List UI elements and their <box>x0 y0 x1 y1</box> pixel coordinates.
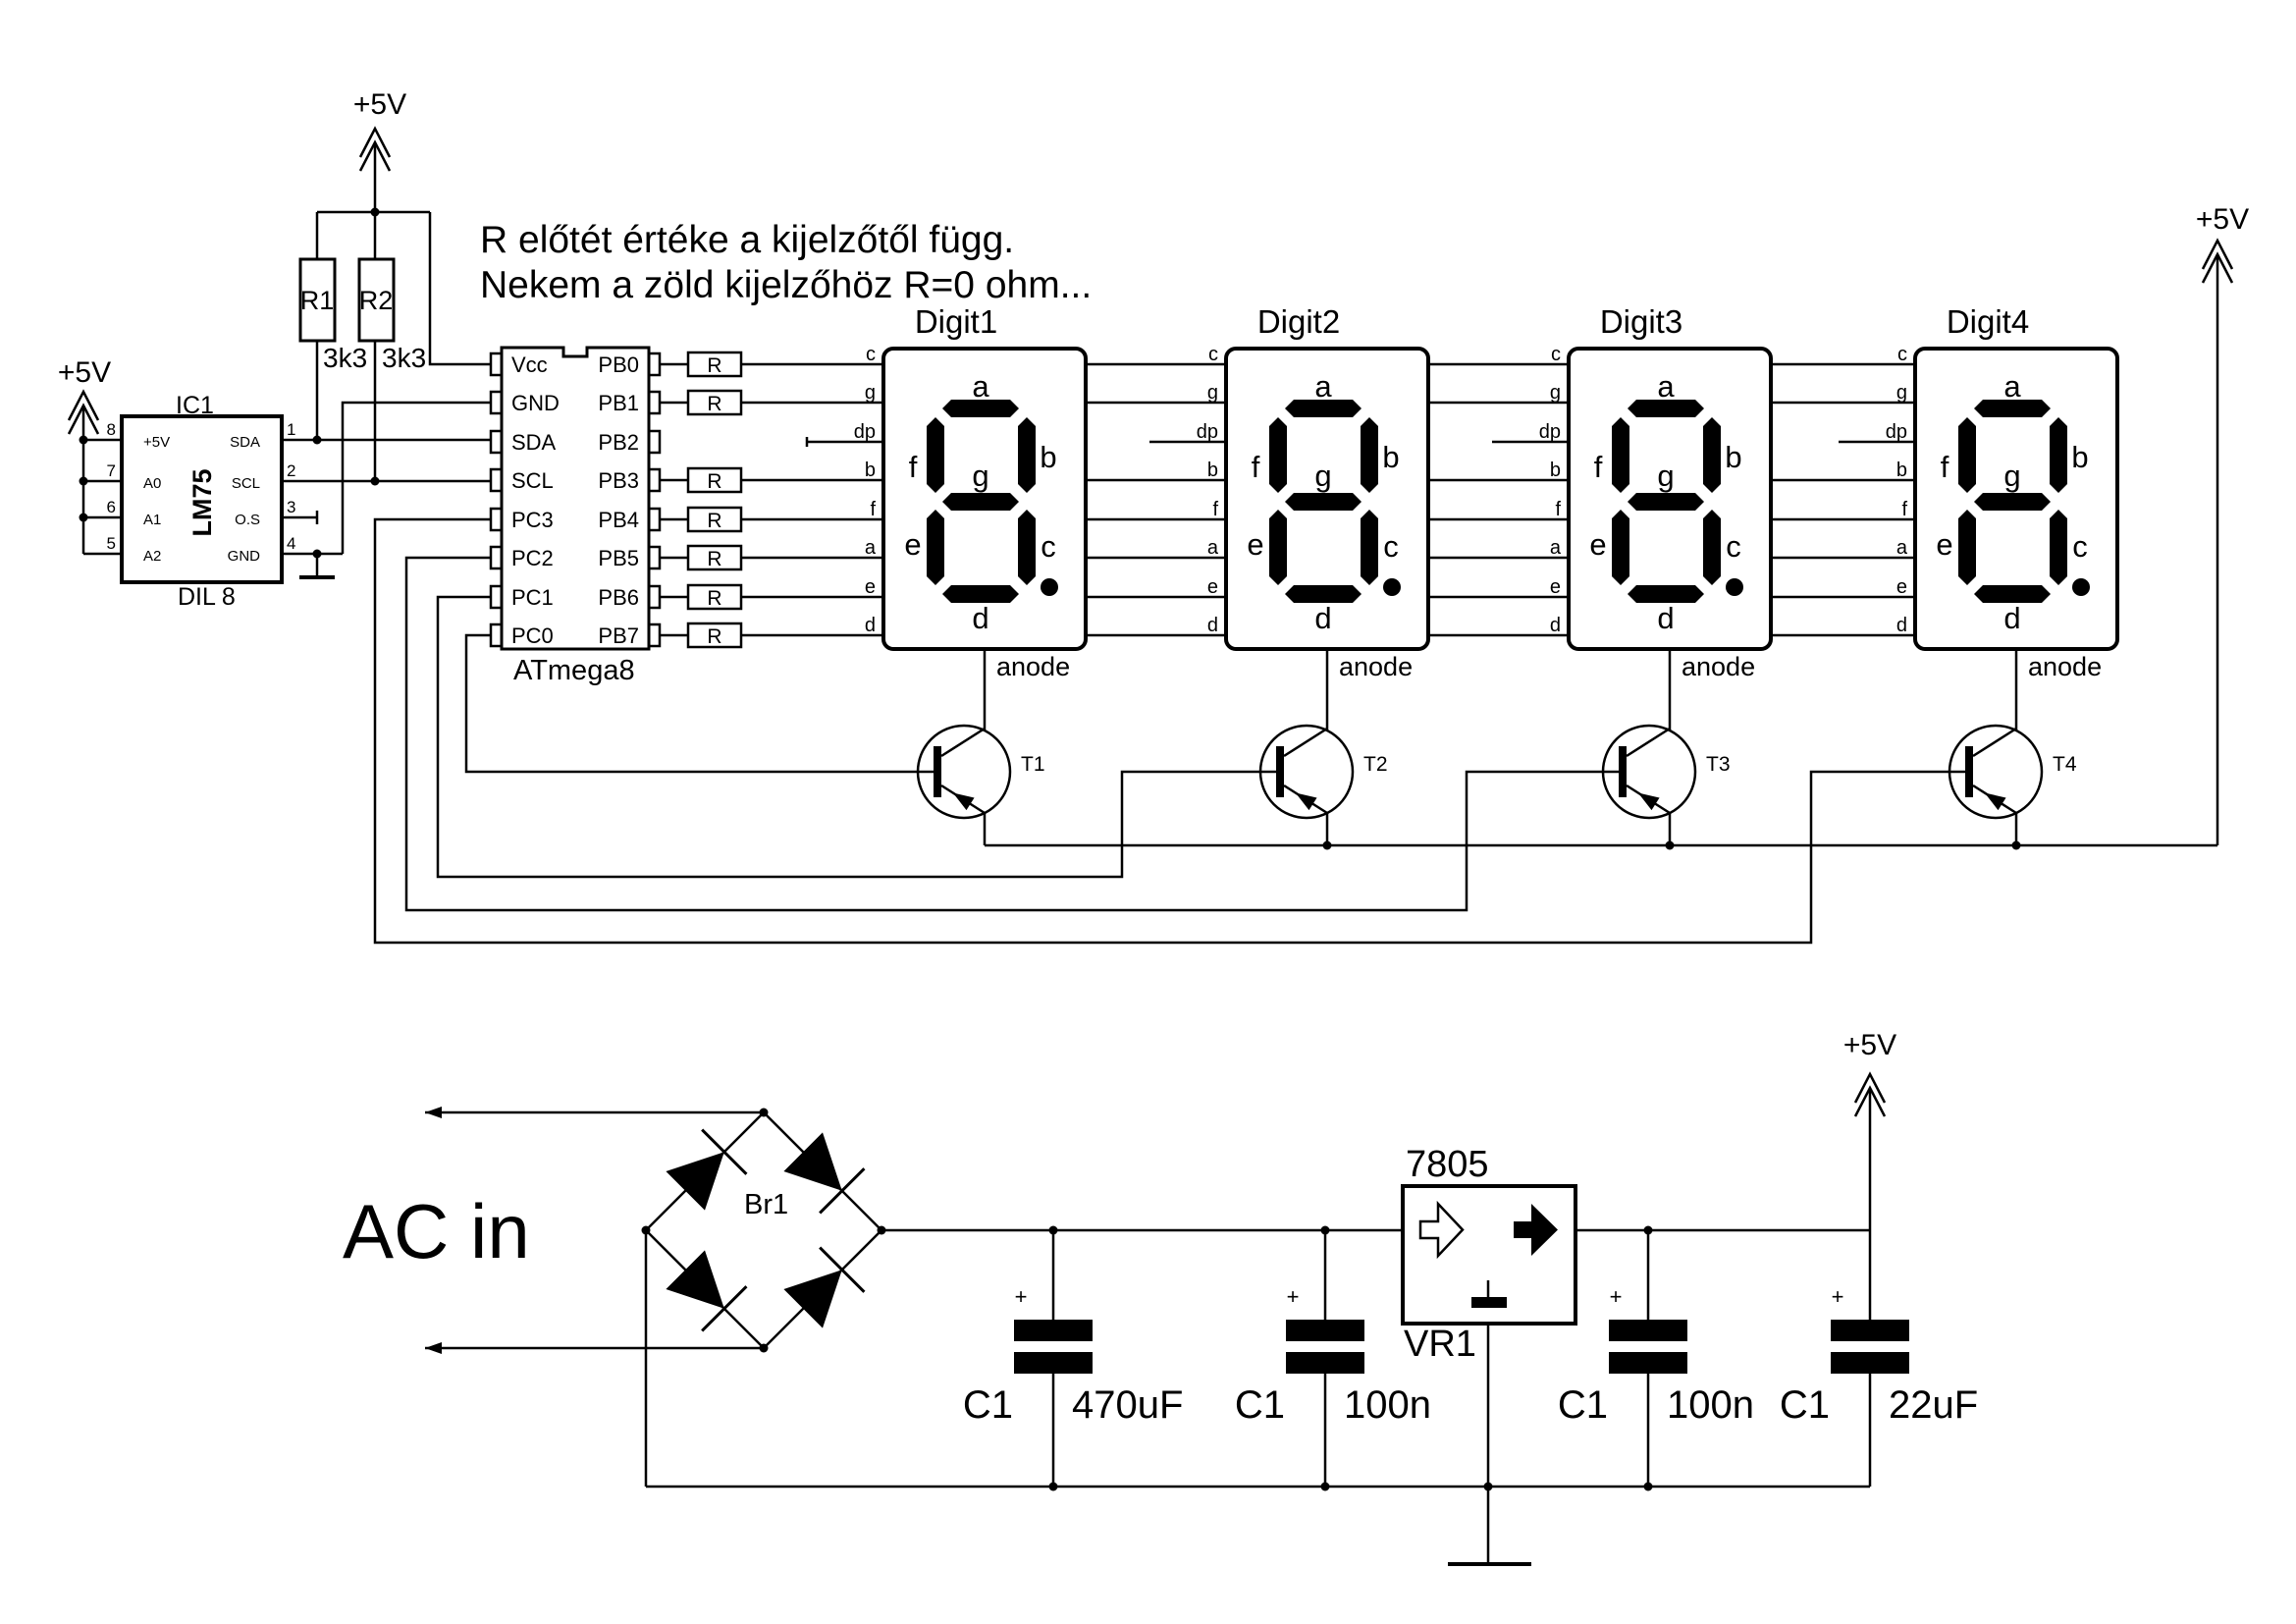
svg-text:d: d <box>1207 615 1218 636</box>
svg-text:d: d <box>972 601 988 635</box>
svg-text:d: d <box>2003 601 2020 635</box>
wire bridge minus down <box>645 1230 648 1487</box>
svg-text:f: f <box>1901 499 1907 520</box>
svg-text:g: g <box>1550 382 1561 404</box>
Digit4 segment f <box>1958 417 1976 493</box>
Digit3 segment f <box>1612 417 1629 493</box>
svg-text:C1: C1 <box>1558 1383 1608 1427</box>
wire PC0 to T1 base <box>466 635 934 772</box>
Digit3 segment g <box>1628 493 1704 511</box>
svg-text:f: f <box>1941 450 1949 484</box>
node junction T3 emitter <box>1666 841 1675 850</box>
svg-text:PB7: PB7 <box>598 623 639 648</box>
svg-text:b: b <box>2071 440 2088 474</box>
VR1 output arrow (solid) <box>1514 1204 1558 1256</box>
resistor R (PB7 series) <box>688 623 741 647</box>
node junction VR1 ground/rail <box>1484 1483 1493 1491</box>
wire PB4 to resistor <box>660 518 688 521</box>
svg-text:Nekem a zöld kijelzőhöz R=0 oh: Nekem a zöld kijelzőhöz R=0 ohm... <box>480 264 1092 306</box>
wire PB0 to resistor <box>660 363 688 366</box>
wire PC1 to T2 base <box>438 597 1276 877</box>
wire segment bus c Digit3 to Digit4 <box>1771 363 1915 366</box>
Digit1 segment f <box>927 417 944 493</box>
svg-text:f: f <box>1594 450 1603 484</box>
wire segment bus d Digit3 to Digit4 <box>1771 634 1915 637</box>
wire resistor to Digit1 (c) <box>741 363 883 366</box>
display Digit1 body <box>883 349 1086 649</box>
svg-text:SDA: SDA <box>511 430 557 455</box>
svg-text:anode: anode <box>1682 652 1755 681</box>
node junction C1 top <box>1049 1226 1058 1235</box>
svg-text:c: c <box>2072 529 2088 564</box>
svg-text:c: c <box>1383 529 1399 564</box>
svg-text:+: + <box>1287 1284 1300 1309</box>
ATmega8 pin stub SCL <box>491 469 502 491</box>
Digit2 segment d <box>1285 585 1362 603</box>
svg-text:e: e <box>904 527 921 562</box>
Digit4 segment a <box>1974 400 2051 417</box>
svg-text:3k3: 3k3 <box>323 343 367 373</box>
wire anode (Digit4) <box>2015 649 2018 731</box>
ground symbol (LM75) <box>316 554 319 577</box>
diode D2 (bridge top-right) <box>783 1132 841 1190</box>
svg-text:d: d <box>1314 601 1331 635</box>
wire emitter T3 <box>1669 813 1672 845</box>
svg-text:22uF: 22uF <box>1889 1383 1978 1427</box>
svg-text:d: d <box>1550 615 1561 636</box>
wire GND up to ATmega8 GND <box>343 403 491 554</box>
Digit1 segment d <box>942 585 1019 603</box>
wire segment bus b Digit2 to Digit3 <box>1428 479 1569 482</box>
svg-text:GND: GND <box>228 548 261 565</box>
svg-text:c: c <box>1551 344 1561 365</box>
svg-text:anode: anode <box>1339 652 1413 681</box>
svg-text:b: b <box>1896 460 1907 481</box>
wire C3 top <box>1647 1230 1650 1320</box>
ATmega8 pin stub PC1 <box>491 586 502 608</box>
Digit3 segment c <box>1703 510 1721 585</box>
svg-text:R: R <box>707 587 721 610</box>
svg-text:d: d <box>1657 601 1674 635</box>
svg-text:T2: T2 <box>1363 753 1388 776</box>
svg-text:1: 1 <box>287 420 295 439</box>
wire AC input top <box>425 1111 764 1114</box>
svg-text:R: R <box>707 625 721 648</box>
wire segment bus c Digit2 to Digit3 <box>1428 363 1569 366</box>
svg-text:PB4: PB4 <box>598 508 639 532</box>
svg-text:+5V: +5V <box>58 356 111 389</box>
wire PB3 to resistor <box>660 479 688 482</box>
wire resistor to Digit1 (e) <box>741 596 883 599</box>
svg-text:dp: dp <box>854 421 876 443</box>
wire LM75 pin6 stub <box>83 516 122 519</box>
Digit1 segment e <box>927 510 944 585</box>
svg-text:3: 3 <box>287 498 295 516</box>
svg-text:a: a <box>865 537 877 559</box>
Digit3 decimal point <box>1726 578 1743 596</box>
Digit2 segment b <box>1361 417 1378 493</box>
svg-text:e: e <box>1896 576 1907 598</box>
wire anode (Digit1) <box>984 649 987 731</box>
ATmega8 pin stub PB6 <box>649 586 660 608</box>
wire PC2 to T3 base <box>406 558 1619 910</box>
transistor T4 <box>1949 726 2042 818</box>
wire R1 bottom to SDA net <box>316 341 319 440</box>
svg-text:A2: A2 <box>143 548 161 565</box>
svg-text:ATmega8: ATmega8 <box>513 655 635 686</box>
node junction R2/SCL <box>371 477 380 486</box>
resistor R1 <box>300 259 335 341</box>
svg-text:+: + <box>1015 1284 1028 1309</box>
wire C2 bottom <box>1324 1374 1327 1487</box>
svg-text:7805: 7805 <box>1406 1144 1489 1185</box>
Digit2 decimal point <box>1383 578 1401 596</box>
svg-text:dp: dp <box>1886 421 1907 443</box>
ATmega8 pin stub SDA <box>491 431 502 453</box>
node junction T2 emitter <box>1323 841 1332 850</box>
svg-text:g: g <box>1314 459 1331 493</box>
svg-text:Digit4: Digit4 <box>1947 303 2029 340</box>
ATmega8 pin stub PC0 <box>491 624 502 646</box>
svg-text:PB2: PB2 <box>598 430 639 455</box>
svg-text:4: 4 <box>287 534 295 553</box>
svg-text:SCL: SCL <box>511 468 554 493</box>
resistor R (PB3 series) <box>688 468 741 492</box>
svg-text:f: f <box>1555 499 1561 520</box>
svg-text:T1: T1 <box>1021 753 1045 776</box>
svg-text:a: a <box>1657 369 1675 404</box>
svg-text:SCL: SCL <box>232 475 260 492</box>
ATmega8 pin stub PB4 <box>649 509 660 530</box>
svg-text:+5V: +5V <box>143 434 170 451</box>
capacitor C3 (100n) <box>1609 1320 1687 1341</box>
Digit2 segment g <box>1285 493 1362 511</box>
node junction bridge right <box>878 1226 886 1235</box>
wire segment bus e Digit3 to Digit4 <box>1771 596 1915 599</box>
svg-text:a: a <box>1207 537 1219 559</box>
svg-text:R2: R2 <box>359 286 394 315</box>
svg-text:g: g <box>865 382 876 404</box>
svg-text:Digit3: Digit3 <box>1600 303 1682 340</box>
svg-text:e: e <box>1936 527 1952 562</box>
wire C2 top <box>1324 1230 1327 1320</box>
svg-text:PB0: PB0 <box>598 352 639 377</box>
Digit4 segment b <box>2050 417 2067 493</box>
wire PC3 to T4 base <box>375 519 1965 943</box>
svg-text:c: c <box>1041 529 1056 564</box>
svg-text:b: b <box>1550 460 1561 481</box>
wire LM75 pin8 stub <box>83 439 122 442</box>
svg-text:b: b <box>1040 440 1056 474</box>
svg-text:b: b <box>1725 440 1741 474</box>
diode D4 (bridge bottom-right) <box>783 1270 841 1327</box>
wire segment bus f Digit1 to Digit2 <box>1086 518 1226 521</box>
wire GND net (LM75 pin4) <box>282 553 343 556</box>
svg-text:PB5: PB5 <box>598 546 639 570</box>
svg-text:g: g <box>972 459 988 493</box>
svg-text:R: R <box>707 354 721 377</box>
Digit1 segment b <box>1018 417 1036 493</box>
svg-text:C1: C1 <box>1780 1383 1830 1427</box>
svg-text:d: d <box>1896 615 1907 636</box>
svg-text:GND: GND <box>511 391 560 415</box>
regulator VR1 body <box>1403 1186 1575 1324</box>
ATmega8 pin stub PB1 <box>649 392 660 413</box>
wire C4 bottom <box>1869 1374 1872 1487</box>
svg-text:5: 5 <box>107 534 116 553</box>
svg-text:100n: 100n <box>1667 1383 1754 1427</box>
VR1 input arrow (outline) <box>1420 1204 1463 1256</box>
ATmega8 pin stub PB5 <box>649 547 660 568</box>
svg-text:PC3: PC3 <box>511 508 554 532</box>
svg-text:e: e <box>1247 527 1263 562</box>
svg-text:470uF: 470uF <box>1072 1383 1183 1427</box>
wire segment bus g Digit2 to Digit3 <box>1428 402 1569 405</box>
ATmega8 pin stub PB3 <box>649 469 660 491</box>
svg-text:PC0: PC0 <box>511 623 554 648</box>
svg-text:b: b <box>1207 460 1218 481</box>
svg-text:b: b <box>865 460 876 481</box>
wire emitter T4 <box>2015 813 2018 845</box>
node junction bridge left <box>642 1226 651 1235</box>
svg-text:2: 2 <box>287 461 295 480</box>
wire C1 bottom <box>1052 1374 1055 1487</box>
VR1 internal ground mark <box>1487 1280 1490 1297</box>
svg-text:R: R <box>707 393 721 415</box>
wire segment bus e Digit1 to Digit2 <box>1086 596 1226 599</box>
wire VR1 ground <box>1487 1324 1490 1564</box>
wire PB7 to resistor <box>660 634 688 637</box>
svg-text:g: g <box>2003 459 2020 493</box>
ground symbol (power) <box>1448 1562 1531 1566</box>
node junction C2 top <box>1321 1226 1330 1235</box>
svg-text:7: 7 <box>107 461 116 480</box>
Digit4 segment c <box>2050 510 2067 585</box>
wire ground rail <box>646 1486 1870 1489</box>
svg-text:Vcc: Vcc <box>511 352 548 377</box>
wire LM75 pin5 stub <box>83 553 122 556</box>
resistor R (PB1 series) <box>688 391 741 414</box>
svg-text:f: f <box>1252 450 1260 484</box>
wire segment bus f Digit3 to Digit4 <box>1771 518 1915 521</box>
svg-text:a: a <box>972 369 989 404</box>
svg-text:f: f <box>870 499 876 520</box>
svg-text:anode: anode <box>2028 652 2102 681</box>
display Digit2 body <box>1226 349 1428 649</box>
svg-text:PB3: PB3 <box>598 468 639 493</box>
display Digit3 body <box>1569 349 1771 649</box>
svg-text:c: c <box>1897 344 1907 365</box>
wire emitter rail <box>985 844 2217 847</box>
svg-text:R: R <box>707 548 721 570</box>
wire O.S pin3 open stub <box>282 516 317 519</box>
wire segment bus d Digit2 to Digit3 <box>1428 634 1569 637</box>
svg-text:a: a <box>1896 537 1908 559</box>
svg-text:C1: C1 <box>963 1383 1013 1427</box>
svg-text:dp: dp <box>1539 421 1561 443</box>
transistor T3 <box>1603 726 1695 818</box>
wire LM75 pin7 stub <box>83 480 122 483</box>
svg-text:C1: C1 <box>1235 1383 1285 1427</box>
svg-text:e: e <box>865 576 876 598</box>
svg-text:R: R <box>707 470 721 493</box>
svg-text:PC2: PC2 <box>511 546 554 570</box>
resistor R (PB5 series) <box>688 546 741 569</box>
ATmega8 pin stub PB7 <box>649 624 660 646</box>
Digit2 segment c <box>1361 510 1378 585</box>
svg-text:g: g <box>1657 459 1674 493</box>
svg-text:anode: anode <box>996 652 1070 681</box>
wire resistor to Digit1 (g) <box>741 402 883 405</box>
svg-text:DIL 8: DIL 8 <box>178 583 236 611</box>
svg-text:c: c <box>1726 529 1741 564</box>
wire segment bus g Digit1 to Digit2 <box>1086 402 1226 405</box>
bridge rectifier Br1 <box>646 1112 764 1230</box>
wire +5V to ATmega8 Vcc <box>430 212 491 364</box>
node junction C2 bottom <box>1321 1483 1330 1491</box>
ATmega8 pin stub Vcc <box>491 353 502 375</box>
Digit4 segment e <box>1958 510 1976 585</box>
wire resistor to Digit1 (b) <box>741 479 883 482</box>
wire PB6 to resistor <box>660 596 688 599</box>
Digit2 segment a <box>1285 400 1362 417</box>
Digit1 segment g <box>942 493 1019 511</box>
wire +5V rail to R1/R2 tops <box>317 211 430 214</box>
node junction C1 bottom <box>1049 1483 1058 1491</box>
svg-text:e: e <box>1589 527 1606 562</box>
wire dp stub to Digit1 <box>806 437 809 447</box>
node junction GND/ground <box>313 550 322 559</box>
Digit1 segment a <box>942 400 1019 417</box>
node junction R1/SDA <box>313 436 322 445</box>
resistor R (PB6 series) <box>688 585 741 609</box>
Digit3 segment b <box>1703 417 1721 493</box>
Digit3 segment e <box>1612 510 1629 585</box>
wire segment bus f Digit2 to Digit3 <box>1428 518 1569 521</box>
svg-text:T3: T3 <box>1706 753 1731 776</box>
svg-text:+5V: +5V <box>1843 1029 1896 1061</box>
svg-text:100n: 100n <box>1344 1383 1431 1427</box>
transistor T2 <box>1260 726 1353 818</box>
wire dp stub to Digit3 <box>1492 441 1569 444</box>
capacitor C1 (470uF) <box>1014 1320 1093 1341</box>
wire R1 top <box>316 212 319 259</box>
node junction bridge top <box>760 1109 769 1117</box>
svg-text:O.S: O.S <box>235 512 260 528</box>
svg-text:VR1: VR1 <box>1404 1324 1476 1365</box>
wire resistor to Digit1 (f) <box>741 518 883 521</box>
node junction pin6 <box>80 514 88 522</box>
svg-text:A0: A0 <box>143 475 161 492</box>
svg-text:R előtét értéke a kijelzőtől f: R előtét értéke a kijelzőtől függ. <box>480 219 1014 261</box>
node junction bridge bottom <box>760 1344 769 1353</box>
ATmega8 pin stub GND <box>491 392 502 413</box>
wire anode (Digit3) <box>1669 649 1672 731</box>
Digit1 decimal point <box>1041 578 1058 596</box>
svg-text:g: g <box>1207 382 1218 404</box>
svg-text:+: + <box>1610 1284 1623 1309</box>
svg-text:A1: A1 <box>143 512 161 528</box>
capacitor C4 (22uF) <box>1831 1320 1909 1341</box>
svg-text:c: c <box>866 344 876 365</box>
svg-text:+5V: +5V <box>353 88 406 121</box>
wire C3 bottom <box>1647 1374 1650 1487</box>
wire PB1 to resistor <box>660 402 688 405</box>
wire segment bus a Digit2 to Digit3 <box>1428 557 1569 560</box>
diode D3 (bridge bottom-left) <box>666 1250 723 1308</box>
svg-text:+: + <box>1832 1284 1844 1309</box>
wire R2 bottom to SCL net <box>374 341 377 481</box>
svg-text:f: f <box>1212 499 1218 520</box>
svg-text:SDA: SDA <box>230 434 260 451</box>
capacitor C2 (100n) <box>1286 1320 1364 1341</box>
svg-text:b: b <box>1382 440 1399 474</box>
svg-text:+5V: +5V <box>2196 203 2249 236</box>
wire emitter T2 <box>1326 813 1329 845</box>
wire PB5 to resistor <box>660 557 688 560</box>
svg-text:e: e <box>1550 576 1561 598</box>
Digit2 segment f <box>1269 417 1287 493</box>
svg-text:R: R <box>707 510 721 532</box>
ATmega8 pin stub PB0 <box>649 353 660 375</box>
microcontroller U1 ATmega8 body (with top notch) <box>502 348 649 649</box>
svg-text:PB1: PB1 <box>598 391 639 415</box>
wire segment bus d Digit1 to Digit2 <box>1086 634 1226 637</box>
svg-text:PC1: PC1 <box>511 585 554 610</box>
svg-text:Digit2: Digit2 <box>1257 303 1340 340</box>
Digit4 segment d <box>1974 585 2051 603</box>
wire segment bus b Digit3 to Digit4 <box>1771 479 1915 482</box>
svg-text:a: a <box>2003 369 2021 404</box>
svg-text:f: f <box>909 450 918 484</box>
temperature sensor IC1 LM75 body <box>122 416 282 582</box>
Digit4 segment g <box>1974 493 2051 511</box>
Digit3 segment d <box>1628 585 1704 603</box>
ATmega8 pin stub PB2 <box>649 431 660 453</box>
diode D1 (bridge top-left) <box>666 1152 723 1210</box>
wire segment bus b Digit1 to Digit2 <box>1086 479 1226 482</box>
wire segment bus g Digit3 to Digit4 <box>1771 402 1915 405</box>
svg-text:e: e <box>1207 576 1218 598</box>
wire bridge plus to regulator <box>881 1229 1403 1232</box>
svg-text:Digit1: Digit1 <box>915 303 997 340</box>
node junction C3 bottom <box>1644 1483 1653 1491</box>
node junction T4 emitter <box>2012 841 2021 850</box>
node junction +5V/R2 <box>371 208 380 217</box>
svg-text:AC in: AC in <box>343 1188 530 1274</box>
ATmega8 pin stub PC2 <box>491 547 502 568</box>
wire resistor to Digit1 (d) <box>741 634 883 637</box>
Digit2 segment e <box>1269 510 1287 585</box>
svg-text:6: 6 <box>107 498 116 516</box>
node junction pin7 <box>80 477 88 486</box>
wire dp stub to Digit4 <box>1839 441 1915 444</box>
wire dp stub to Digit2 <box>1149 441 1226 444</box>
resistor R2 <box>359 259 394 341</box>
wire R2 top <box>374 212 377 259</box>
resistor R (PB0 series) <box>688 352 741 376</box>
wire segment bus e Digit2 to Digit3 <box>1428 596 1569 599</box>
svg-text:a: a <box>1314 369 1332 404</box>
wire segment bus a Digit3 to Digit4 <box>1771 557 1915 560</box>
wire emitter T1 <box>984 813 987 845</box>
svg-text:c: c <box>1208 344 1218 365</box>
svg-text:d: d <box>865 615 876 636</box>
node junction pin8 <box>80 436 88 445</box>
wire regulator output rail <box>1575 1229 1870 1232</box>
wire resistor to Digit1 (a) <box>741 557 883 560</box>
transistor T1 <box>918 726 1010 818</box>
